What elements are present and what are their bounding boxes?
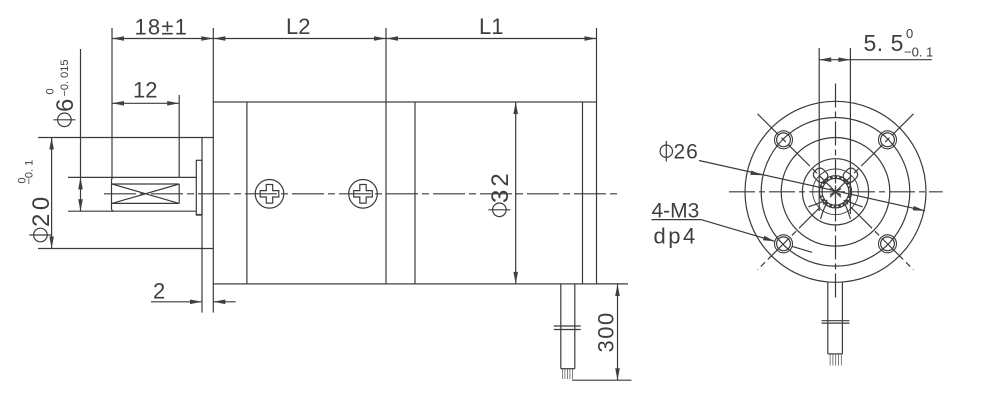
svg-text:L2: L2 [286, 14, 310, 39]
wire break lines front [822, 320, 850, 322]
arrow phi32 bottom [513, 272, 518, 284]
svg-text:12: 12 [133, 78, 157, 103]
screw 2 cross [354, 185, 373, 204]
5.5 dim line [819, 59, 932, 61]
arrow 2 right [213, 299, 225, 304]
svg-text:20: 20 [28, 193, 55, 227]
knurl right edge [178, 184, 180, 203]
knurl bottom line [112, 202, 179, 204]
wire tube end [561, 368, 575, 370]
knurl top line [112, 183, 179, 185]
300 bottom ext line [572, 379, 632, 381]
arrow L2 right [374, 36, 386, 41]
hole bottom-left [775, 235, 793, 253]
motor front line [414, 102, 416, 284]
arrow phi32 top [513, 102, 518, 114]
arrow 300 bottom [615, 368, 620, 380]
dim line 300 [617, 284, 619, 380]
svg-text:L1: L1 [479, 14, 503, 39]
shaft top line + phi6 ext [68, 176, 196, 178]
shaft knurl ring bottom arc [821, 196, 850, 207]
petal NE [841, 166, 859, 184]
knurl diagonal 2 [112, 184, 179, 203]
shaft bottom line + phi6 ext [68, 210, 196, 212]
svg-text:4-M3: 4-M3 [652, 200, 700, 223]
center dot [834, 190, 837, 193]
petal NW [811, 166, 829, 184]
flange top edge + phi20 ext top [38, 137, 213, 139]
svg-text:5. 5: 5. 5 [864, 30, 904, 56]
petal base circle [813, 169, 859, 215]
svg-text:300: 300 [594, 311, 619, 352]
dim 2 line right [213, 301, 235, 303]
hole top-left [775, 131, 793, 149]
center asterisk [830, 185, 841, 198]
shaft left end cap [112, 177, 115, 211]
4-M3 leader underline [652, 219, 702, 221]
wire break lines [554, 325, 581, 327]
gearbox/motor joint line [385, 28, 387, 284]
phi26 arrow on bolt circle [750, 170, 763, 177]
arrow 18 right [201, 36, 213, 41]
funnel SW [808, 202, 825, 219]
wire tube end front [828, 353, 843, 355]
arrow L2 left [213, 36, 225, 41]
arrow L1 left [386, 36, 398, 41]
bolt circle [761, 118, 910, 267]
hole top-right [879, 131, 897, 149]
svg-text:dp4: dp4 [654, 224, 698, 249]
svg-text:6: 6 [52, 98, 79, 112]
inner circle [802, 159, 868, 225]
body bottom ext to 300 dim [597, 283, 629, 285]
dim line phi6 [80, 49, 82, 211]
5.5 ext line left [818, 48, 820, 211]
arrow 12 left [112, 101, 124, 106]
svg-text:0: 0 [45, 88, 57, 94]
wire strands side [562, 369, 572, 379]
dim line phi32 [515, 102, 517, 284]
hole bottom-right [879, 235, 897, 253]
dim line phi20 [51, 138, 53, 249]
svg-text:18±1: 18±1 [135, 15, 189, 40]
funnel SE [845, 202, 862, 219]
phi26 leader line [699, 161, 925, 211]
ext line 18 left / 12 left [111, 28, 113, 177]
wire strands front [830, 354, 841, 366]
screw 1 head [255, 180, 284, 209]
arrow phi6 top [78, 177, 83, 189]
screw 1 cross [260, 185, 279, 204]
ext line 12 right [178, 95, 180, 177]
motor body outline [213, 102, 596, 284]
wire tube front view [827, 283, 829, 354]
ext line above flange [212, 28, 214, 102]
arrow 5.5 right [838, 57, 850, 62]
svg-text:−0. 1: −0. 1 [904, 45, 933, 60]
svg-text:0: 0 [906, 26, 913, 41]
screw 2 head [349, 180, 378, 209]
arrow 2 left [190, 299, 202, 304]
arrow 300 top [615, 284, 620, 296]
shaft inner circle [822, 178, 849, 205]
rear cap line [582, 102, 584, 284]
arrow L1 right [585, 36, 597, 41]
center line side view [104, 193, 621, 195]
svg-text:2: 2 [153, 279, 165, 304]
boss on flange [196, 160, 202, 214]
arrow phi6 bottom [78, 199, 83, 211]
knurl diagonal 1 [112, 184, 179, 203]
arrow 5.5 left [819, 57, 831, 62]
horizontal center line front [729, 191, 943, 193]
5.5 ext line right [849, 48, 851, 214]
vertical center line front [835, 84, 837, 301]
dim line 12 [112, 102, 179, 104]
diagonal center line 1 [758, 114, 914, 270]
shaft knurl ring top arc [821, 177, 850, 188]
flange plate front edge [201, 138, 203, 313]
4-M3 arrow [763, 236, 776, 244]
4-M3 leader line [701, 220, 775, 242]
ext line below flange [212, 284, 214, 313]
arrow 18 left [112, 36, 124, 41]
arrow 12 right [167, 101, 179, 106]
ext line L1 right [596, 28, 598, 102]
outer circle [745, 101, 926, 282]
dim 2 line left [151, 301, 202, 303]
svg-text:−0. 015: −0. 015 [59, 59, 71, 96]
shaft outer circle [819, 176, 851, 208]
arrow phi20 top [49, 138, 54, 150]
diagonal center line 2 [758, 114, 914, 270]
gearbox front ring line [246, 102, 248, 284]
svg-text:26: 26 [674, 141, 699, 164]
middle circle [781, 138, 890, 247]
phi26 arrow on outer circle [913, 206, 926, 213]
svg-text:−0. 1: −0. 1 [24, 160, 36, 185]
wire tube side view [560, 284, 562, 369]
top dimension line [112, 38, 597, 40]
svg-text:32: 32 [487, 170, 514, 203]
flange bottom edge + phi20 ext bottom [38, 248, 213, 250]
arrow phi20 bottom [49, 237, 54, 249]
